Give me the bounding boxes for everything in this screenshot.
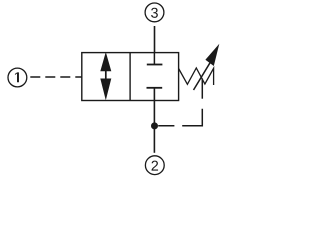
blocked port top T stem — [153, 53, 155, 64]
flow position arrow head down — [100, 79, 111, 101]
valve body box — [82, 53, 179, 101]
wire port 2 vertical — [153, 88, 155, 153]
blocked port bottom T bar — [147, 87, 163, 89]
valve body divider — [129, 53, 131, 101]
pilot line below spring upper segment — [201, 79, 203, 99]
port circle 1 — [8, 68, 27, 87]
port circle 3 — [145, 3, 164, 22]
port circle 2 — [145, 156, 164, 175]
flow position arrow head up — [100, 52, 111, 71]
wire port 3 to valve — [154, 26, 156, 53]
flow position double arrow shaft — [105, 69, 107, 81]
adjustment arrow head — [205, 44, 219, 66]
pilot line horizontal dash — [158, 125, 174, 127]
junction dot — [151, 122, 158, 129]
pilot line corner segment — [182, 109, 202, 126]
blocked port top T bar — [147, 64, 163, 66]
pilot dashed line from port 1 — [30, 76, 82, 78]
adjustment arrow shaft — [194, 63, 211, 90]
adjustable spring — [179, 68, 214, 85]
